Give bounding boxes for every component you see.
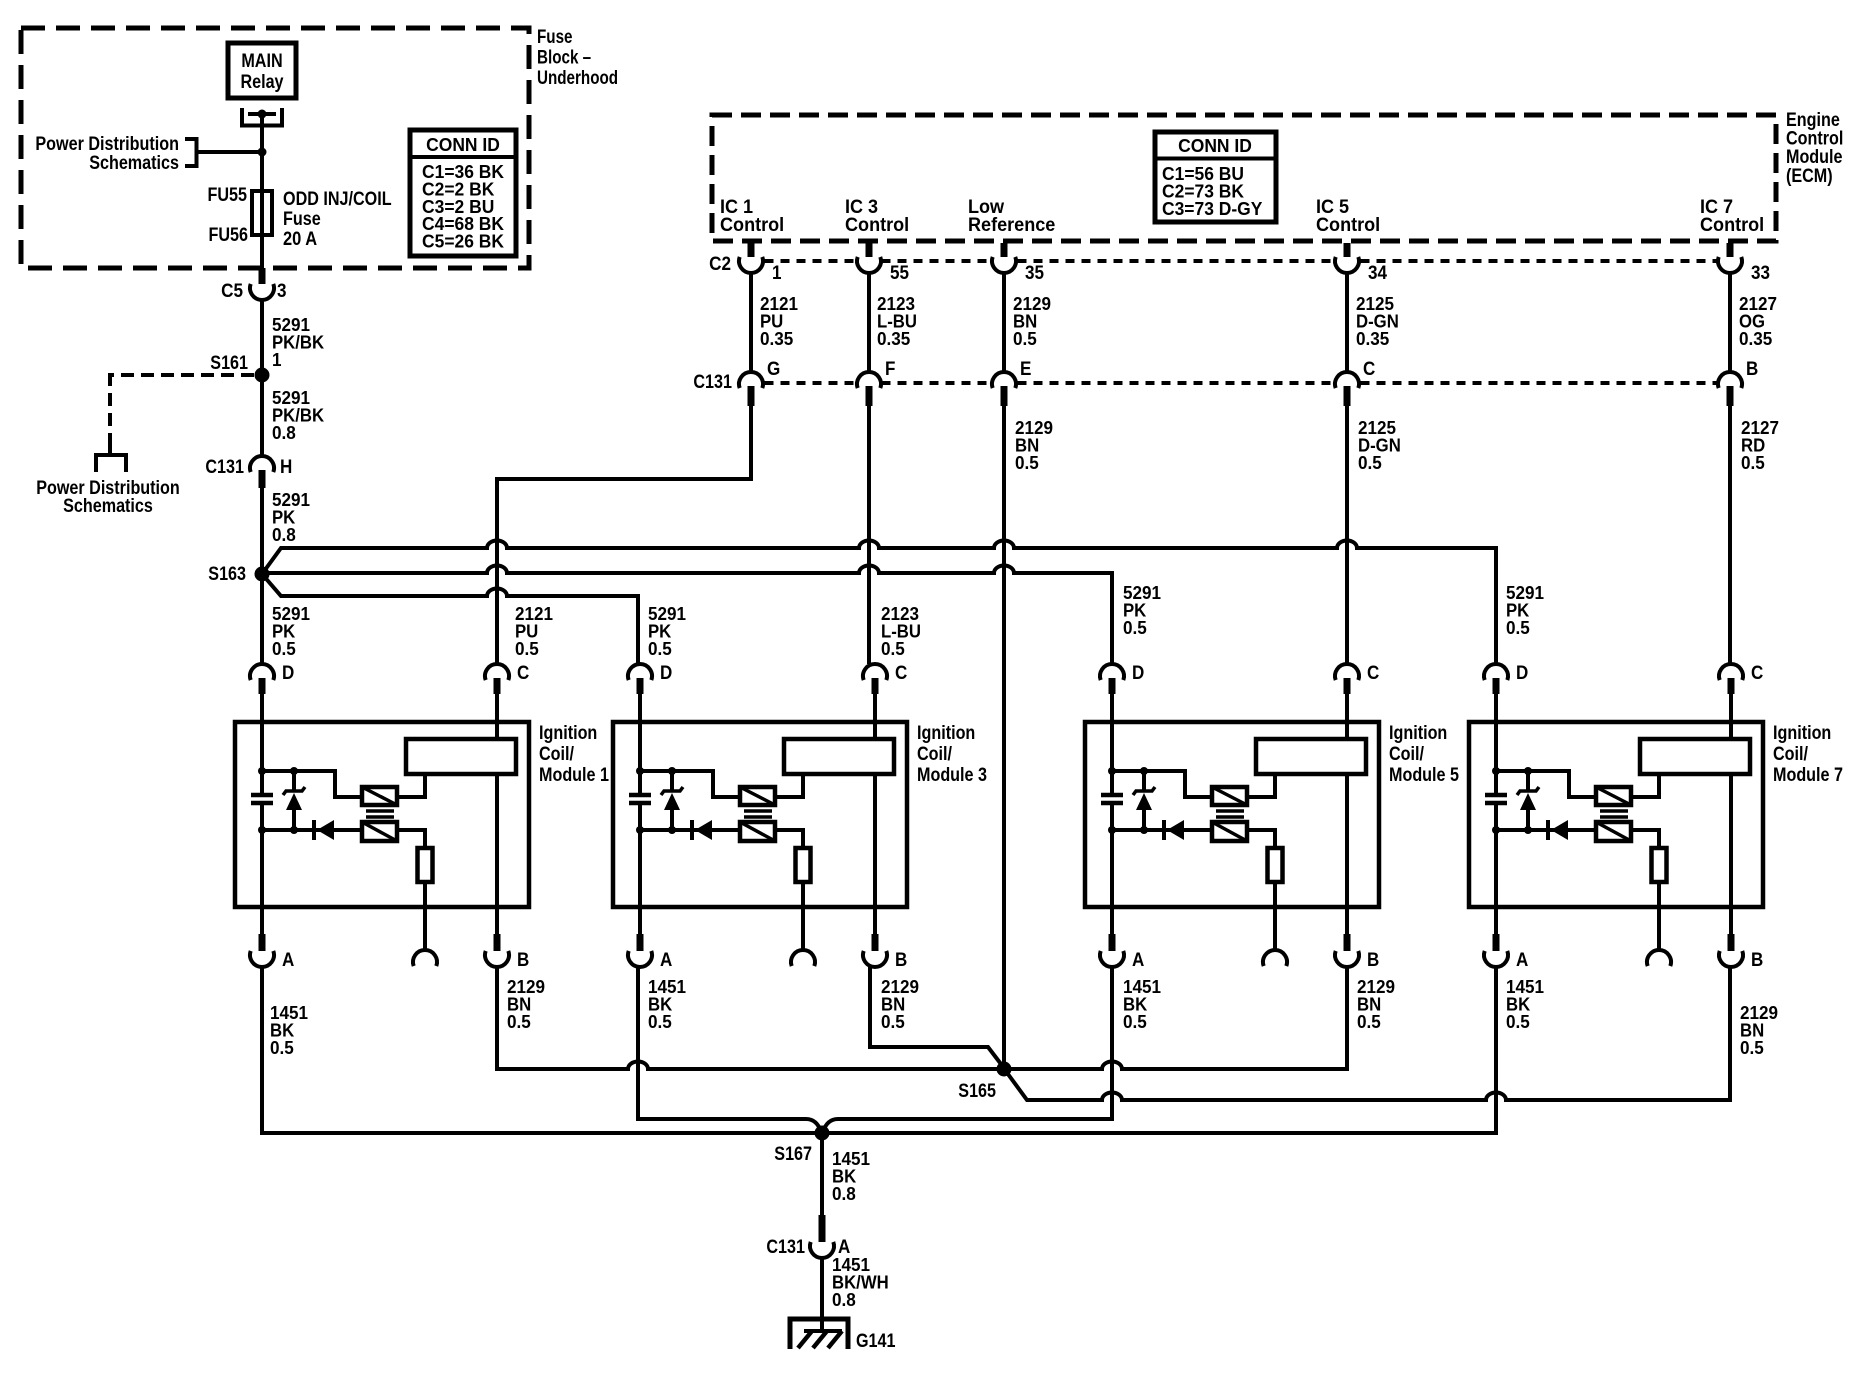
module 3 pin C connector xyxy=(863,664,887,680)
module 5 internal left wire xyxy=(1110,722,1114,793)
wire S163 down to module 1 pin D xyxy=(260,574,264,664)
svg-text:Power Distribution: Power Distribution xyxy=(35,134,179,155)
module 5 node junctions xyxy=(1108,767,1116,775)
svg-text:0.5: 0.5 xyxy=(1740,1038,1764,1058)
module 7 pin C wire into box xyxy=(1729,694,1733,722)
svg-text:Module 1: Module 1 xyxy=(539,765,609,786)
svg-text:55: 55 xyxy=(890,263,909,284)
svg-text:0.5: 0.5 xyxy=(1015,453,1039,473)
module 3 pin C wire into box xyxy=(873,694,877,722)
module 7 secondary winding box (lower) xyxy=(1596,822,1631,841)
svg-text:A: A xyxy=(1132,950,1145,971)
C2 pin 55 xyxy=(866,243,873,257)
module 5 pin C wire into box xyxy=(1345,694,1349,722)
module 5 wire primary to secondary rect xyxy=(1247,774,1275,797)
svg-text:S163: S163 xyxy=(208,564,246,585)
wire 2129 BN: S165 to module7 B xyxy=(1005,967,1730,1100)
module 5 zener diode xyxy=(1142,771,1146,791)
wire: IC5 control (C) to module 5 pin C xyxy=(1345,406,1349,664)
C131 pin E xyxy=(992,372,1016,388)
svg-text:B: B xyxy=(517,950,529,971)
module 7 coil secondary rectangle xyxy=(1640,739,1750,774)
wire 1451 BK: module3 A to S167 xyxy=(638,967,821,1131)
splice S167 xyxy=(815,1126,830,1141)
svg-text:Control: Control xyxy=(1316,215,1380,236)
svg-text:Block –: Block – xyxy=(537,48,591,69)
C2 pin 35 xyxy=(1001,243,1008,257)
connector C131 pin A xyxy=(819,1215,826,1242)
svg-text:CONN ID: CONN ID xyxy=(426,135,500,155)
module 1 pin A connector xyxy=(260,907,264,934)
dashed branch to power distribution xyxy=(110,373,254,377)
svg-text:FU55: FU55 xyxy=(208,185,248,206)
svg-text:0.35: 0.35 xyxy=(877,329,910,349)
svg-text:Module 7: Module 7 xyxy=(1773,765,1843,786)
svg-text:0.5: 0.5 xyxy=(1357,1012,1381,1032)
module 3 pin B connector xyxy=(873,907,877,934)
fuse FU55/FU56: ODD INJ/COIL Fuse 20 A xyxy=(252,191,272,235)
module 3 secondary winding box (lower) xyxy=(740,822,775,841)
module 1 wire lower coil to resistor xyxy=(397,830,425,848)
module 1 resistor xyxy=(418,848,433,882)
wire: IC3 control (F) to module 3 pin C xyxy=(867,406,871,664)
svg-text:FU56: FU56 xyxy=(209,225,249,246)
svg-text:A: A xyxy=(282,950,295,971)
module 5 coil tower terminal xyxy=(1263,950,1287,966)
svg-text:20 A: 20 A xyxy=(283,229,317,250)
module 5 right wire through secondary xyxy=(1345,722,1349,739)
svg-text:Control: Control xyxy=(720,215,784,236)
module 7 node junctions xyxy=(1492,767,1500,775)
module 7 right wire through secondary xyxy=(1729,722,1733,739)
module 5 coil secondary rectangle xyxy=(1256,739,1366,774)
svg-text:C5: C5 xyxy=(221,281,243,302)
svg-text:0.5: 0.5 xyxy=(507,1012,531,1032)
module 3 wire lower coil to resistor xyxy=(775,830,803,848)
svg-text:A: A xyxy=(660,950,673,971)
module 5 secondary winding box (lower) xyxy=(1212,822,1247,841)
relay K: MAIN Relay box xyxy=(228,43,296,98)
module 1 secondary winding box (lower) xyxy=(362,822,397,841)
module 1 capacitor xyxy=(251,793,273,798)
svg-text:0.8: 0.8 xyxy=(832,1290,856,1310)
module 7 diode xyxy=(1546,820,1550,840)
CONN ID table (fuse block) xyxy=(410,130,516,256)
svg-text:Control: Control xyxy=(1700,215,1764,236)
module 3 primary winding (transformer) xyxy=(740,787,775,805)
svg-text:35: 35 xyxy=(1025,263,1044,284)
svg-text:Reference: Reference xyxy=(968,215,1055,236)
module 3 pin A connector xyxy=(638,907,642,934)
module 7 pin D wire into box xyxy=(1494,694,1498,722)
svg-text:B: B xyxy=(1751,950,1763,971)
module 1 transformer core xyxy=(366,809,394,813)
module 1 primary winding (transformer) xyxy=(362,787,397,805)
module 5 pin A connector xyxy=(1110,907,1114,934)
module 1 internal left wire xyxy=(260,722,264,793)
svg-text:0.35: 0.35 xyxy=(1356,329,1389,349)
svg-text:0.5: 0.5 xyxy=(881,639,905,659)
wire 5291 PK/BK 0.8 xyxy=(260,375,264,456)
svg-text:D: D xyxy=(282,663,294,684)
module 3 diode xyxy=(690,820,694,840)
svg-text:C: C xyxy=(517,663,530,684)
svg-text:MAIN: MAIN xyxy=(241,51,282,72)
svg-text:Coil/: Coil/ xyxy=(1773,744,1809,765)
module 5 pin D connector xyxy=(1100,664,1124,680)
splice S165 xyxy=(997,1062,1012,1077)
module 7 resistor xyxy=(1652,848,1667,882)
module 1 node junctions xyxy=(258,767,266,775)
svg-text:Ignition: Ignition xyxy=(539,723,597,744)
module 3 top internal wire to primary coil xyxy=(640,771,740,797)
wire 5291 PK 0.8 xyxy=(260,488,264,568)
ignition coil/module 1 (box) xyxy=(235,722,529,907)
svg-text:C: C xyxy=(1363,359,1376,380)
svg-text:Control: Control xyxy=(845,215,909,236)
svg-text:Fuse: Fuse xyxy=(283,209,321,230)
svg-text:0.8: 0.8 xyxy=(272,423,296,443)
C131 pin F xyxy=(857,372,881,388)
module 7 wire resistor to coil tower xyxy=(1657,882,1661,950)
module 7 lower internal wire with diode xyxy=(1496,828,1596,832)
wires C2 to C131 xyxy=(749,273,753,372)
wire 2129 BN: module3 B to S165 xyxy=(870,967,1004,1068)
wire 1451 BK/WH 0.8: C131 A to ground xyxy=(820,1258,824,1331)
svg-text:0.5: 0.5 xyxy=(1358,453,1382,473)
module 5 primary winding (transformer) xyxy=(1212,787,1247,805)
wire: low reference (E) down to S165 xyxy=(1002,406,1006,1063)
module 1 pin D connector xyxy=(250,664,274,680)
svg-text:(ECM): (ECM) xyxy=(1786,166,1833,187)
svg-text:0.5: 0.5 xyxy=(272,639,296,659)
svg-text:D: D xyxy=(1516,663,1528,684)
wire S163 to module 7 pin D (top bus) xyxy=(262,541,1496,664)
module 3 pin D wire into box xyxy=(638,694,642,722)
svg-text:D: D xyxy=(660,663,672,684)
svg-text:0.5: 0.5 xyxy=(648,1012,672,1032)
module 1 pin B connector xyxy=(495,907,499,934)
svg-text:Underhood: Underhood xyxy=(537,68,618,89)
svg-text:Fuse: Fuse xyxy=(537,27,573,48)
svg-text:CONN ID: CONN ID xyxy=(1178,136,1252,156)
svg-text:C3=73 D-GY: C3=73 D-GY xyxy=(1162,199,1262,219)
svg-text:H: H xyxy=(280,457,292,478)
connector C5 pin 3 xyxy=(259,268,266,284)
module 1 wire resistor to coil tower xyxy=(423,882,427,950)
svg-text:0.5: 0.5 xyxy=(1123,618,1147,638)
svg-text:C: C xyxy=(1367,663,1380,684)
wire: IC7 control (B) to module 7 pin C xyxy=(1728,406,1732,664)
reference bracket (bottom-left) xyxy=(96,455,126,472)
svg-text:A: A xyxy=(1516,950,1529,971)
C131 pin C xyxy=(1335,372,1359,388)
svg-text:Module 3: Module 3 xyxy=(917,765,987,786)
svg-text:Relay: Relay xyxy=(240,72,283,93)
svg-text:C131: C131 xyxy=(205,457,244,478)
svg-text:C: C xyxy=(895,663,908,684)
C131 pin G xyxy=(739,372,763,388)
ignition coil/module 5 (box) xyxy=(1085,722,1379,907)
svg-text:S165: S165 xyxy=(958,1081,996,1102)
svg-text:1: 1 xyxy=(772,263,782,284)
svg-text:B: B xyxy=(1746,359,1758,380)
wire 1451 BK: module1 A to module7 A through S167 xyxy=(262,967,1496,1133)
svg-text:33: 33 xyxy=(1751,263,1770,284)
svg-text:Schematics: Schematics xyxy=(89,153,179,174)
module 3 zener diode xyxy=(670,771,674,791)
module 1 coil tower terminal xyxy=(413,950,437,966)
C2 pin 33 xyxy=(1727,243,1734,257)
module 5 lower internal wire with diode xyxy=(1112,828,1212,832)
connector row C2 (dotted) xyxy=(765,259,855,263)
module 7 transformer core xyxy=(1600,809,1628,813)
module 1 coil secondary rectangle xyxy=(406,739,516,774)
svg-text:S161: S161 xyxy=(210,353,248,374)
svg-text:Ignition: Ignition xyxy=(917,723,975,744)
module 3 resistor xyxy=(796,848,811,882)
connector C131 pin H xyxy=(250,456,274,472)
svg-text:G: G xyxy=(767,359,780,380)
svg-text:E: E xyxy=(1020,359,1031,380)
module 3 transformer core xyxy=(744,809,772,813)
module 3 coil tower terminal xyxy=(791,950,815,966)
svg-text:0.5: 0.5 xyxy=(1506,618,1530,638)
connector row C131 (dotted) xyxy=(765,381,855,385)
module 1 lower internal wire with diode xyxy=(262,828,362,832)
wire S163 to module 3 pin D (bottom bus) xyxy=(262,574,638,664)
svg-text:C5=26 BK: C5=26 BK xyxy=(422,232,504,252)
svg-text:0.5: 0.5 xyxy=(648,639,672,659)
module 5 pin B connector xyxy=(1345,907,1349,934)
svg-text:B: B xyxy=(895,950,907,971)
C2 pin 1 xyxy=(748,243,755,257)
reference bracket to Power Distribution Schematics xyxy=(185,139,197,166)
svg-text:Coil/: Coil/ xyxy=(917,744,953,765)
relay contact pin bracket xyxy=(242,108,282,126)
svg-text:0.5: 0.5 xyxy=(1123,1012,1147,1032)
module 1 top internal wire to primary coil xyxy=(262,771,362,797)
wire 5291 PK/BK 1 xyxy=(260,300,264,369)
svg-text:C2: C2 xyxy=(709,254,731,275)
wire: IC1 control (G) jog to module 1 pin C xyxy=(497,406,751,664)
svg-text:0.8: 0.8 xyxy=(272,525,296,545)
wire: relay output down to fuse xyxy=(260,114,264,268)
module 3 right wire through secondary xyxy=(873,722,877,739)
svg-text:Ignition: Ignition xyxy=(1389,723,1447,744)
svg-text:0.35: 0.35 xyxy=(760,329,793,349)
module 3 pin D connector xyxy=(628,664,652,680)
svg-text:C131: C131 xyxy=(766,1237,805,1258)
module 5 resistor xyxy=(1268,848,1283,882)
module 5 diode xyxy=(1162,820,1166,840)
svg-text:Coil/: Coil/ xyxy=(539,744,575,765)
svg-text:0.5: 0.5 xyxy=(1013,329,1037,349)
module 5 transformer core xyxy=(1216,809,1244,813)
module 5 pin D wire into box xyxy=(1110,694,1114,722)
wire S163 to module 5 pin D (middle bus) xyxy=(262,566,1112,665)
module 7 pin D connector xyxy=(1484,664,1508,680)
module 5 top internal wire to primary coil xyxy=(1112,771,1212,797)
svg-text:0.5: 0.5 xyxy=(270,1038,294,1058)
module 1 pin C wire into box xyxy=(495,694,499,722)
module 5 wire lower coil to resistor xyxy=(1247,830,1275,848)
svg-text:Module 5: Module 5 xyxy=(1389,765,1459,786)
module 7 pin A connector xyxy=(1494,907,1498,934)
svg-text:S167: S167 xyxy=(774,1144,812,1165)
splice S163 xyxy=(255,567,270,582)
module 3 wire primary to secondary rect xyxy=(775,774,803,797)
splice S161 xyxy=(255,368,270,383)
module 5 pin C connector xyxy=(1335,664,1359,680)
module 7 pin C connector xyxy=(1719,664,1743,680)
fuse block - underhood (dashed enclosure) xyxy=(21,28,529,268)
ignition coil/module 7 (box) xyxy=(1469,722,1763,907)
module 7 coil tower terminal xyxy=(1647,950,1671,966)
module 7 pin B connector xyxy=(1729,907,1733,934)
svg-text:0.5: 0.5 xyxy=(881,1012,905,1032)
svg-text:B: B xyxy=(1367,950,1379,971)
C131 pin B xyxy=(1718,372,1742,388)
svg-text:0.5: 0.5 xyxy=(515,639,539,659)
module 7 wire lower coil to resistor xyxy=(1631,830,1659,848)
module 3 internal left wire xyxy=(638,722,642,793)
wire 1451 BK 0.8: S167 down to C131 A xyxy=(820,1133,824,1215)
module 3 node junctions xyxy=(636,767,644,775)
svg-text:F: F xyxy=(885,359,895,380)
module 1 diode xyxy=(312,820,316,840)
module 5 wire resistor to coil tower xyxy=(1273,882,1277,950)
svg-text:Ignition: Ignition xyxy=(1773,723,1831,744)
module 7 zener diode xyxy=(1526,771,1530,791)
svg-text:0.35: 0.35 xyxy=(1739,329,1772,349)
svg-text:0.5: 0.5 xyxy=(1506,1012,1530,1032)
svg-text:0.8: 0.8 xyxy=(832,1184,856,1204)
module 7 primary winding (transformer) xyxy=(1596,787,1631,805)
module 1 right wire through secondary xyxy=(495,722,499,739)
svg-text:Coil/: Coil/ xyxy=(1389,744,1425,765)
module 7 internal left wire xyxy=(1494,722,1498,793)
module 1 wire primary to secondary rect xyxy=(397,774,425,797)
svg-text:0.5: 0.5 xyxy=(1741,453,1765,473)
ignition coil/module 3 (box) xyxy=(613,722,907,907)
module 3 wire resistor to coil tower xyxy=(801,882,805,950)
module 7 capacitor xyxy=(1485,793,1507,798)
ground G141 xyxy=(790,1319,848,1349)
module 7 wire primary to secondary rect xyxy=(1631,774,1659,797)
module 1 zener diode xyxy=(292,771,296,791)
svg-text:3: 3 xyxy=(277,281,287,302)
svg-text:D: D xyxy=(1132,663,1144,684)
svg-text:1: 1 xyxy=(272,350,282,370)
engine control module (dashed enclosure) xyxy=(712,115,1776,241)
module 5 capacitor xyxy=(1101,793,1123,798)
wire 2129 BN: module1 B / module5 B to S165 xyxy=(497,967,1347,1069)
module 3 coil secondary rectangle xyxy=(784,739,894,774)
svg-text:Schematics: Schematics xyxy=(63,496,153,517)
CONN ID table (ECM) xyxy=(1155,132,1276,222)
svg-text:ODD INJ/COIL: ODD INJ/COIL xyxy=(283,189,392,210)
svg-text:C131: C131 xyxy=(693,372,732,393)
svg-text:34: 34 xyxy=(1368,263,1387,284)
wire 1451 BK: module5 A to S167 xyxy=(823,967,1112,1131)
module 3 capacitor xyxy=(629,793,651,798)
module 7 top internal wire to primary coil xyxy=(1496,771,1596,797)
C2 pin 34 xyxy=(1344,243,1351,257)
module 1 pin C connector xyxy=(485,664,509,680)
svg-text:G141: G141 xyxy=(856,1331,896,1352)
svg-text:C: C xyxy=(1751,663,1764,684)
module 1 pin D wire into box xyxy=(260,694,264,722)
module 3 lower internal wire with diode xyxy=(640,828,740,832)
